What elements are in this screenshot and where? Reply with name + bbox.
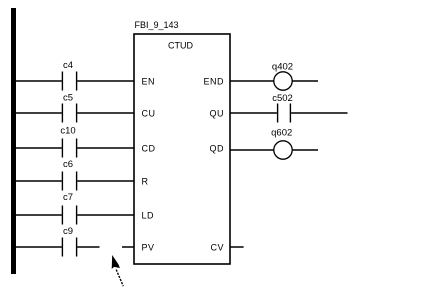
wire rung6 left [16,246,62,248]
svg-text:c7: c7 [63,192,73,203]
svg-text:PV: PV [142,243,155,253]
svg-text:CTUD: CTUD [168,41,193,51]
wire END-to-coil [230,80,274,82]
wire rung6 after contact (open end) [77,246,99,248]
wire QD-to-coil [230,149,274,151]
svg-text:c6: c6 [63,159,73,170]
svg-text:CU: CU [142,109,156,119]
svg-text:c4: c4 [63,60,73,71]
svg-text:CV: CV [210,243,224,253]
wire rung2 contact-to-block [77,112,134,114]
contact c502 [272,93,293,123]
wire CV stub [230,246,244,248]
contact c9 [62,226,76,257]
wire rung5 left [16,214,62,216]
wire after coil q602 [292,149,318,151]
svg-text:END: END [203,77,224,87]
svg-text:CD: CD [142,144,156,154]
contact c10 [60,125,76,157]
wire rung4 left [16,180,62,182]
svg-text:q602: q602 [271,128,292,139]
wire after contact c502 [291,112,347,114]
svg-text:c10: c10 [60,125,75,136]
wire QU-to-contact [230,112,277,114]
contact c7 [62,192,76,225]
wire after coil q402 [292,80,318,82]
wire rung3 left [16,147,62,149]
svg-text:c5: c5 [63,93,73,104]
wire rung1 contact-to-block [77,80,134,82]
function block U: FBI_9_143 CTUD [134,20,230,264]
svg-text:c502: c502 [272,93,293,104]
svg-text:q402: q402 [272,61,293,72]
svg-text:LD: LD [142,211,155,221]
contact c4 [62,60,76,91]
svg-text:QU: QU [210,109,225,119]
left power rail [11,8,16,274]
contact c5 [62,93,76,123]
mouse cursor arrow [112,255,124,286]
svg-text:QD: QD [210,144,225,154]
svg-text:R: R [142,177,149,187]
wire rung4 contact-to-block [77,180,134,182]
coil q602 [271,128,292,160]
svg-text:c9: c9 [63,226,73,237]
contact c6 [62,159,76,191]
svg-text:FBI_9_143: FBI_9_143 [135,20,179,30]
wire rung5 contact-to-block [77,214,134,216]
coil q402 [272,61,293,90]
wire PV stub into block [122,246,134,248]
wire rung3 contact-to-block [77,147,134,149]
wire rung1 left [16,80,62,82]
svg-text:EN: EN [142,77,156,87]
wire rung2 left [16,112,62,114]
